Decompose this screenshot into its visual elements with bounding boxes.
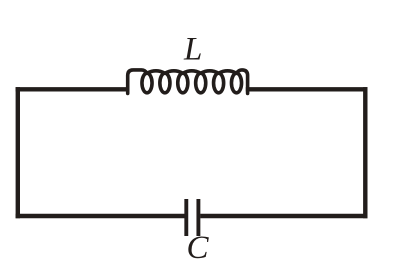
svg-text:C: C bbox=[187, 230, 210, 266]
wire: bottom right segment bbox=[200, 214, 367, 218]
svg-text:L: L bbox=[183, 31, 202, 67]
wire: right vertical side bbox=[363, 87, 367, 218]
wire: top right segment bbox=[246, 87, 368, 91]
inductor L coil loops bbox=[142, 73, 152, 93]
wire: left vertical side bbox=[16, 87, 20, 218]
wire: top left segment bbox=[16, 87, 130, 91]
capacitor C left plate bbox=[184, 199, 188, 236]
capacitor C right plate bbox=[196, 199, 200, 236]
wire: bottom left segment bbox=[16, 214, 185, 218]
inductor L coil scalloped top wire bbox=[128, 70, 248, 94]
